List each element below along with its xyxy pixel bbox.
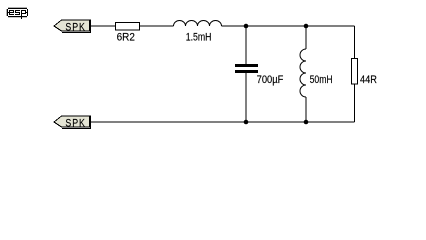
junction: capacitor / bottom rail node: [244, 120, 249, 125]
junction: inductor 50mH / bottom rail node: [304, 120, 309, 125]
svg-text:1.5mH: 1.5mH: [186, 32, 212, 44]
resistor 44R (shunt, right branch): [352, 59, 358, 85]
wire: bottom rail from SPK port to right corner: [91, 121, 355, 123]
wire: inductor 50mH bottom stub: [305, 97, 307, 122]
wire: top rail from inductor 1.5mH to right corner: [222, 25, 355, 27]
svg-text:6R2: 6R2: [117, 32, 135, 44]
resistor 6R2 (series, top rail): [116, 23, 140, 31]
ESP logo (top-left corner emblem): [6, 7, 28, 19]
wire: resistor 6R2 to inductor 1.5mH: [140, 25, 174, 27]
wire: top SPK port to resistor 6R2: [91, 25, 116, 27]
wire: capacitor top stub: [245, 26, 247, 65]
capacitor 700uF (shunt): [235, 64, 258, 73]
port SPK top (left arrow connector): [54, 20, 91, 34]
inductor 50mH (shunt): [300, 49, 306, 97]
svg-text:700µF: 700µF: [257, 74, 284, 86]
inductor 1.5mH (series, top rail): [174, 21, 222, 26]
junction: inductor 50mH / top rail node: [304, 24, 309, 29]
wire: inductor 50mH top stub: [305, 26, 307, 49]
wire: resistor 44R bottom stub: [354, 84, 356, 122]
svg-text:44R: 44R: [360, 74, 377, 86]
svg-text:50mH: 50mH: [310, 74, 333, 86]
svg-text:SPK: SPK: [65, 118, 85, 130]
svg-text:SPK: SPK: [65, 22, 85, 34]
port SPK bottom (left arrow connector): [54, 116, 91, 130]
wire: capacitor bottom stub: [245, 73, 247, 123]
junction: capacitor / top rail node: [244, 24, 249, 29]
wire: resistor 44R top stub: [354, 26, 356, 59]
